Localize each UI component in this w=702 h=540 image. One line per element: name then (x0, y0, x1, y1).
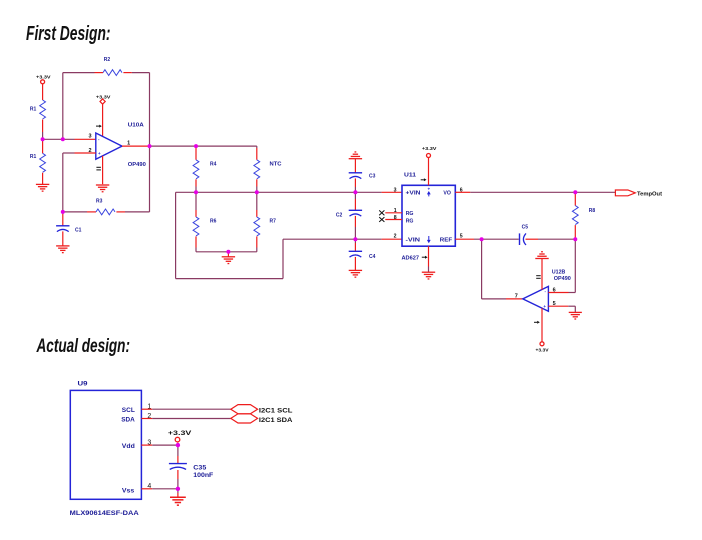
svg-text:C1: C1 (75, 228, 82, 234)
svg-text:Actual design:: Actual design: (36, 335, 130, 357)
svg-text:OP490: OP490 (128, 162, 146, 168)
svg-text:+3.3V: +3.3V (536, 348, 550, 354)
svg-text:R2: R2 (104, 57, 111, 63)
svg-text:I2C1 SCL: I2C1 SCL (259, 408, 293, 415)
svg-text:1: 1 (394, 208, 397, 214)
svg-text:U9: U9 (78, 381, 88, 388)
svg-text:U11: U11 (404, 173, 416, 179)
svg-text:R1: R1 (30, 107, 37, 113)
svg-text:100nF: 100nF (193, 472, 213, 479)
svg-text:OP490: OP490 (554, 276, 571, 282)
svg-text:NTC: NTC (270, 162, 282, 168)
svg-text:TempOut: TempOut (637, 191, 662, 197)
svg-text:5: 5 (553, 301, 556, 307)
svg-text:MLX90614ESF-DAA: MLX90614ESF-DAA (70, 510, 139, 517)
svg-text:+VIN: +VIN (406, 191, 421, 197)
svg-text:C4: C4 (369, 254, 376, 260)
svg-text:R1: R1 (30, 154, 37, 160)
svg-text:-VIN: -VIN (406, 237, 421, 243)
svg-text:R3: R3 (96, 199, 103, 205)
svg-text:+: + (543, 304, 546, 309)
svg-text:R7: R7 (270, 218, 277, 224)
svg-text:Vdd: Vdd (122, 443, 135, 450)
svg-text:1: 1 (147, 404, 151, 411)
svg-text:R6: R6 (210, 218, 217, 224)
svg-text:R8: R8 (589, 208, 596, 214)
svg-text:C35: C35 (193, 464, 206, 471)
svg-text:3: 3 (394, 187, 397, 193)
svg-text:VO: VO (443, 191, 451, 197)
svg-text:+3.3V: +3.3V (422, 146, 437, 152)
svg-text:8: 8 (394, 215, 397, 221)
svg-text:U10A: U10A (128, 122, 144, 128)
svg-text:+3.3V: +3.3V (168, 430, 192, 437)
svg-text:7: 7 (515, 293, 518, 299)
svg-text:2: 2 (394, 234, 397, 240)
svg-text:C5: C5 (522, 224, 529, 230)
svg-text:AD627: AD627 (402, 255, 420, 261)
svg-text:U12B: U12B (552, 270, 566, 276)
svg-text:First Design:: First Design: (26, 23, 111, 45)
svg-text:6: 6 (553, 288, 556, 294)
svg-text:I2C1 SDA: I2C1 SDA (259, 417, 293, 424)
svg-text:3: 3 (88, 134, 91, 140)
svg-text:4: 4 (147, 483, 151, 490)
svg-text:3: 3 (147, 439, 151, 446)
svg-text:+: + (427, 186, 430, 191)
svg-text:Vss: Vss (122, 487, 135, 494)
svg-text:RG: RG (406, 218, 414, 224)
svg-text:REF: REF (440, 237, 452, 243)
svg-text:SCL: SCL (122, 407, 135, 414)
svg-text:C3: C3 (369, 173, 376, 179)
svg-text:+: + (98, 151, 101, 156)
svg-text:SDA: SDA (121, 416, 135, 423)
svg-text:RG: RG (406, 211, 414, 217)
svg-text:R4: R4 (210, 162, 217, 168)
svg-text:2: 2 (147, 413, 151, 420)
svg-text:C2: C2 (336, 213, 343, 219)
